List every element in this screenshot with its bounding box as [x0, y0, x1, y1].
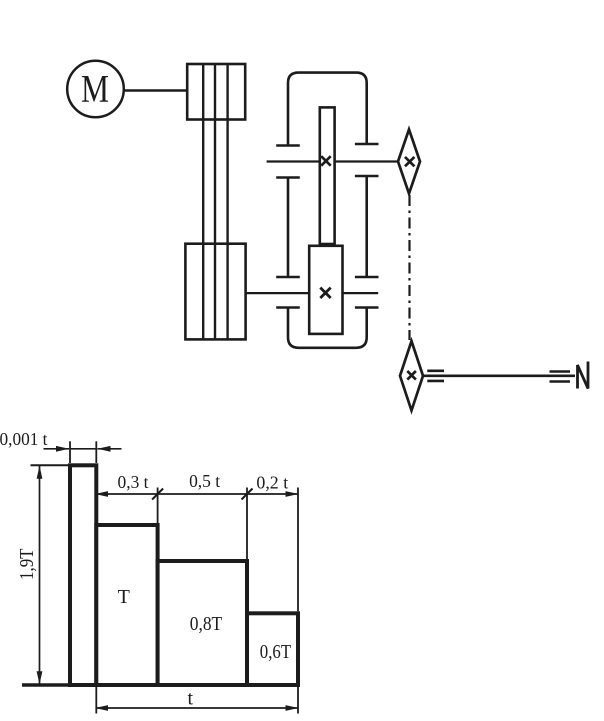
svg-text:0,8T: 0,8T [190, 613, 222, 635]
machine label N glyph [578, 362, 589, 389]
svg-text:0,001 t: 0,001 t [0, 429, 48, 449]
svg-text:0,6T: 0,6T [260, 641, 291, 663]
dim 1,9T extension top [31, 464, 69, 466]
dim 0,001t extension left [69, 441, 71, 463]
bearing cap right lower-shaft below [355, 306, 379, 309]
coupling C2 diamond [400, 341, 423, 410]
coupling C2 hub bar upper [427, 369, 444, 372]
coupling C1 diamond [398, 129, 420, 193]
bearing cap left lower-shaft above [276, 276, 300, 279]
svg-text:0,5 t: 0,5 t [189, 471, 220, 491]
bearing cap right lower-shaft above [355, 276, 379, 279]
wire dash-dot link between couplings [408, 195, 410, 340]
dim 1,9T arrow down [37, 671, 43, 684]
coupling C2 cross mark [407, 371, 416, 380]
dim 0,001t arrow left [56, 446, 69, 452]
machine hub bar lower [550, 380, 571, 383]
wire shaft to machine N [423, 374, 575, 377]
svg-text:M: M [81, 68, 109, 111]
gear Z2 wheel on input shaft [309, 246, 342, 334]
dim t arrow right [286, 705, 299, 711]
dim t arrow left [95, 705, 108, 711]
coupling C1 cross mark [405, 157, 414, 166]
gear Z2 cross mark [320, 288, 330, 298]
gear Z1 cross mark [321, 156, 331, 166]
bearing cap left upper-shaft below [276, 176, 300, 179]
dim row2 arrow left [95, 491, 108, 497]
gear Z1 pinion on output shaft [320, 107, 335, 244]
gearbox housing top section [288, 73, 367, 146]
chart bar 1 (1.9T peak) [70, 465, 96, 685]
svg-text:1,9T: 1,9T [16, 549, 38, 581]
chart bar 2 (T) [96, 525, 157, 685]
belt line 1 [202, 64, 204, 339]
dim t line [96, 707, 298, 709]
belt line 2 [214, 64, 216, 339]
dim row2 arrow right [286, 491, 299, 497]
bearing cap left lower-shaft below [276, 306, 300, 309]
dim 1,9T arrow up [37, 466, 43, 479]
svg-text:0,3 t: 0,3 t [118, 472, 149, 492]
dim 0,001t line right [98, 448, 122, 450]
belt line 3 [226, 64, 228, 339]
gearbox housing bottom section [288, 308, 367, 348]
dim 0,001t extension right [95, 441, 97, 463]
wire gearbox input shaft [246, 292, 379, 294]
wire motor shaft [124, 89, 186, 92]
chart bar 4 (0.6T) [247, 613, 298, 685]
gearbox housing right wall middle [365, 176, 368, 277]
gearbox housing left wall middle [287, 178, 290, 278]
dim row2 extension at bar3 right [246, 488, 248, 560]
dim row2 extension at bar2 right [157, 488, 159, 524]
svg-text:T: T [118, 586, 130, 608]
bearing cap left upper-shaft above [276, 144, 300, 147]
dim row2 line [96, 493, 298, 495]
bearing cap right upper-shaft below [355, 175, 379, 178]
dim 0,001t line middle [70, 448, 96, 450]
svg-text:0,2 t: 0,2 t [256, 472, 288, 492]
coupling C2 hub bar lower [427, 380, 444, 383]
chart bar 3 (0.8T) [158, 561, 247, 685]
svg-text:t: t [188, 688, 194, 710]
dim 0,001t line left [44, 448, 70, 450]
dim t extension right [297, 687, 299, 714]
bearing cap right upper-shaft above [355, 143, 379, 146]
dim t extension left [95, 687, 97, 714]
dim row2 oblique tick 2 [242, 489, 253, 500]
dim row2 oblique tick 1 [152, 489, 163, 500]
dim row2 extension at bar4 right [297, 488, 299, 612]
dim 0,001t arrow right [98, 446, 111, 452]
dim 1,9T vertical line [39, 466, 41, 684]
chart baseline [22, 683, 299, 687]
pulley P2 (driven, lower) [185, 244, 245, 340]
machine hub bar upper [550, 370, 571, 373]
pulley P1 (driving, upper) [187, 64, 245, 120]
motor M1 circle [67, 61, 124, 118]
wire gearbox output shaft [267, 160, 398, 162]
